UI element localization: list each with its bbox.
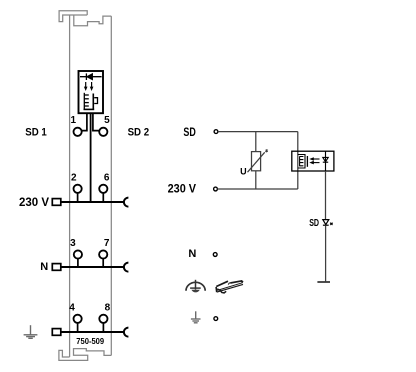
ground symbol right: [191, 311, 201, 323]
svg-text:6: 6: [104, 172, 110, 183]
svg-text:4: 4: [69, 303, 75, 314]
wire LED down: [325, 171, 327, 219]
module outline left edge: [69, 15, 71, 357]
svg-text:SD: SD: [309, 217, 319, 228]
photo-MOS symbol in right box: [298, 155, 308, 169]
ground T-bar: [317, 281, 330, 283]
svg-text:3: 3: [70, 238, 76, 249]
varistor star mark: [265, 149, 268, 152]
svg-text:N: N: [188, 248, 196, 260]
module top clip profile: [59, 11, 111, 26]
wire right vertical through box: [297, 132, 299, 189]
terminal circle 4: [74, 315, 82, 323]
terminal circle 8: [99, 315, 107, 323]
varistor U: [252, 152, 261, 171]
photo-MOS symbol inside box: [84, 93, 98, 110]
stem circle4 to bus: [77, 323, 79, 332]
varistor diagonal: [248, 152, 265, 172]
svg-text:750-509: 750-509: [76, 337, 104, 346]
wire 230V bottom: [217, 188, 297, 190]
terminal circle 3: [74, 250, 82, 258]
stem circle6 to bus: [102, 193, 104, 202]
terminal circle 1: [74, 128, 82, 136]
terminal circle 7: [99, 250, 107, 258]
module bottom foot profile: [59, 349, 111, 361]
optocoupler box U1: [79, 71, 104, 113]
status LED diode: [323, 220, 329, 226]
LED diode inside box: [80, 73, 102, 80]
wire to ground bar: [325, 225, 327, 281]
svg-text:7: 7: [104, 238, 110, 249]
DIN rail icon: [216, 280, 243, 293]
node SD: [214, 130, 218, 134]
light arrows left in right box: [309, 157, 319, 164]
N terminal square: [52, 264, 61, 271]
wire varistor branch bottom: [255, 171, 257, 189]
wire box lead left to terminal 1: [82, 113, 87, 130]
wire SD top: [218, 131, 298, 133]
svg-text:230 V: 230 V: [19, 197, 49, 209]
230V terminal square: [52, 199, 61, 206]
wire center lead down to 230V bus: [90, 113, 92, 202]
terminal circle 2: [74, 185, 82, 193]
svg-text:1: 1: [71, 115, 77, 126]
wire varistor branch top: [255, 132, 257, 152]
module outline right edge: [110, 16, 112, 355]
optocoupler box U2 (right schematic): [292, 151, 334, 171]
LED in right box: [323, 151, 328, 171]
node N: [213, 253, 217, 257]
terminal circle 6: [99, 185, 107, 193]
earth jumper contact arc: [124, 328, 129, 337]
ground symbol left: [24, 325, 38, 338]
stem circle8 to bus: [102, 323, 104, 332]
tiny asterisk: [330, 223, 333, 226]
stem circle7 to bus: [102, 259, 104, 268]
stem circle2 to bus: [77, 193, 79, 202]
svg-text:5: 5: [104, 115, 110, 126]
230V jumper contact arc: [124, 198, 129, 207]
node earth: [214, 317, 218, 321]
earth-dome icon: [186, 280, 205, 293]
N jumper contact arc: [124, 263, 129, 272]
terminal circle 5: [99, 128, 107, 136]
N bus line: [61, 266, 124, 268]
earth terminal square: [52, 329, 61, 336]
svg-text:U: U: [240, 166, 247, 176]
svg-text:SD 2: SD 2: [128, 127, 150, 139]
light arrows down: [84, 82, 94, 91]
stem circle3 to bus: [77, 259, 79, 268]
svg-text:230 V: 230 V: [168, 183, 197, 195]
node 230V: [214, 187, 218, 191]
svg-text:2: 2: [71, 172, 77, 183]
230V bus line: [61, 201, 124, 203]
earth bus line: [61, 331, 124, 333]
svg-text:N: N: [40, 261, 48, 273]
svg-text:SD 1: SD 1: [25, 127, 47, 139]
svg-text:8: 8: [105, 303, 111, 314]
wire box lead right to terminal 5: [93, 113, 100, 130]
svg-text:SD: SD: [183, 126, 196, 140]
